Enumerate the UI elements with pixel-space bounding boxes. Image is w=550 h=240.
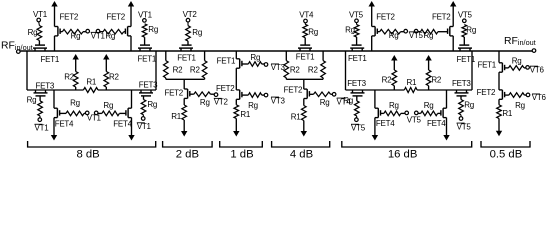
wire FET1R gate lead (16dB)	[463, 37, 465, 45]
transistor FET4 (16dB bottom-right shunt)	[427, 108, 447, 128]
resistor R1 (4dB)	[291, 99, 306, 122]
svg-text:VT2: VT2	[183, 10, 198, 19]
svg-text:Rg: Rg	[320, 98, 330, 107]
wire 16dB bottom rail right	[417, 89, 472, 91]
svg-text:Rg: Rg	[515, 101, 525, 110]
svg-text:FET2: FET2	[477, 88, 496, 97]
svg-text:Rg: Rg	[27, 95, 37, 104]
svg-text:1 dB: 1 dB	[230, 149, 253, 161]
resistor Rg (16dB FET1L gate)	[345, 25, 359, 37]
resistor Rg (FET3R gate)	[141, 100, 157, 115]
resistor R2 (8dB left)	[64, 72, 78, 91]
resistor R1 (1dB)	[234, 99, 251, 119]
resistor Rg (FET4L gate)	[60, 99, 84, 116]
wire FET1 gate lead (4dB)	[304, 38, 306, 45]
wire input node drop	[26, 51, 28, 90]
transistor FET1 (16dB left series)	[348, 45, 367, 63]
svg-text:R2: R2	[308, 65, 319, 74]
node VT4 terminal	[299, 11, 314, 25]
svg-text:Rg: Rg	[28, 28, 38, 37]
node V-bar-T3 terminal (1dB upper)	[262, 63, 286, 72]
svg-text:Rg: Rg	[147, 100, 157, 109]
svg-text:Rg: Rg	[389, 101, 399, 110]
wire main RF rail	[20, 50, 532, 52]
svg-text:Rg: Rg	[424, 31, 434, 40]
svg-text:R1: R1	[240, 110, 251, 119]
transistor FET2 (2dB shunt)	[164, 88, 189, 98]
wire FET4R drain to bottom rail	[131, 90, 133, 108]
svg-text:VT1: VT1	[91, 32, 106, 41]
svg-text:FET2: FET2	[376, 13, 395, 22]
transistor FET3 (8dB bottom-left series)	[34, 81, 55, 96]
node V-bar-T1 terminal (top middle right)	[91, 29, 106, 40]
resistor Rg (FET1L gate)	[28, 26, 42, 41]
transistor FET1 (2dB series)	[177, 45, 196, 63]
svg-text:2 dB: 2 dB	[176, 149, 199, 161]
transistor FET2 (8dB top-right shunt)	[106, 13, 131, 36]
node V-bar-T1 terminal (bottom left)	[35, 116, 50, 133]
transistor FET2 (8dB top-left shunt)	[55, 13, 79, 36]
svg-text:VT5: VT5	[457, 122, 472, 131]
transistor FET2 (1dB)	[216, 84, 242, 100]
svg-text:Rg: Rg	[70, 99, 80, 108]
svg-text:Rg: Rg	[464, 101, 474, 110]
wire 16dB FET4L drain to rail	[374, 90, 376, 108]
svg-text:VT1: VT1	[87, 113, 102, 122]
transistor FET2 (0.5dB)	[477, 88, 505, 99]
wire 4dB R2R drop	[322, 51, 324, 61]
node V-bar-T1 terminal (bottom right)	[137, 115, 152, 131]
svg-text:R1: R1	[171, 112, 182, 121]
svg-text:R2: R2	[64, 73, 75, 82]
ground (arrow up, 16dB R2L)	[391, 55, 397, 70]
resistor R1 (16dB)	[404, 78, 417, 92]
resistor Rg (1dB FET2 gate)	[242, 93, 262, 110]
wire FET4L drain to bottom rail	[53, 90, 55, 108]
transistor FET1 (8dB right series)	[138, 45, 157, 63]
transistor FET1 (1dB)	[217, 56, 242, 68]
resistor Rg (16dB FET3R gate)	[459, 100, 474, 115]
svg-text:FET1: FET1	[477, 60, 496, 69]
wire FET1 gate lead (2dB)	[187, 41, 189, 45]
svg-text:FET2: FET2	[216, 84, 235, 93]
ground (arrow down, 16dB FET4R)	[443, 118, 449, 141]
svg-text:R2: R2	[190, 65, 201, 74]
wire FET3L gate lead	[39, 96, 41, 101]
svg-text:VT6: VT6	[532, 93, 547, 102]
svg-text:Rg: Rg	[308, 28, 318, 37]
wire 4dB join	[286, 78, 323, 80]
resistor Rg (4dB FET1 gate)	[303, 24, 318, 37]
transistor FET2 (4dB shunt)	[284, 86, 310, 99]
node V-bar-T5 terminal (bottom left)	[351, 116, 366, 133]
svg-text:FET2: FET2	[432, 12, 451, 21]
wire 2dB R2L drop	[165, 51, 167, 61]
wire 16dB bottom rail left	[346, 89, 405, 91]
node VT5 terminal (bottom mid-right)	[407, 111, 422, 125]
svg-text:VT5: VT5	[349, 11, 364, 20]
transistor FET3 (16dB bottom-right series)	[452, 79, 471, 96]
wire FET1L gate lead	[38, 41, 40, 46]
resistor R1 (8dB)	[83, 78, 98, 93]
svg-text:RFin/out: RFin/out	[504, 36, 536, 47]
wire FET3L gate lead (16dB)	[356, 96, 358, 101]
wire 16dB input drop	[345, 51, 347, 90]
wire FET1L gate lead (16dB)	[356, 37, 358, 45]
svg-text:FET3: FET3	[139, 81, 158, 90]
resistor Rg (2dB FET2 gate)	[190, 92, 211, 107]
svg-text:R1: R1	[291, 113, 302, 122]
svg-text:FET1: FET1	[457, 55, 476, 64]
node V-bar-T6 terminal (upper)	[524, 65, 545, 74]
ground (arrow down, 0.5dB)	[496, 119, 502, 137]
svg-text:VT5: VT5	[409, 31, 424, 40]
ground (arrow up, FET2L)	[51, 1, 57, 27]
svg-text:FET4: FET4	[376, 119, 395, 128]
ground (arrow up, 16dB FET2L)	[369, 1, 375, 27]
node VT5 terminal (top right)	[458, 11, 473, 23]
wire 16dB output drop	[471, 51, 473, 90]
ground (arrow down, FET4R)	[128, 118, 134, 141]
svg-text:FET3: FET3	[347, 79, 366, 88]
resistor R1 (2dB)	[171, 98, 186, 121]
resistor Rg (16dB FET3L gate)	[343, 96, 359, 116]
transistor FET3 (16dB bottom-left series)	[347, 79, 366, 96]
svg-text:Rg: Rg	[148, 25, 158, 34]
ground (arrow down, 1dB)	[233, 119, 239, 137]
ground (arrow up, R2 right)	[103, 54, 109, 72]
resistor Rg (1dB FET1 gate)	[242, 53, 262, 67]
wire FET3R gate lead (16dB)	[460, 96, 462, 100]
svg-text:FET1: FET1	[348, 54, 367, 63]
svg-text:FET3: FET3	[36, 81, 55, 90]
resistor Rg (FET2R gate)	[100, 29, 124, 40]
wire output node drop	[155, 51, 157, 90]
svg-text:VT2: VT2	[214, 98, 229, 107]
node V-bar-T6 terminal (lower)	[524, 93, 546, 102]
svg-text:R2: R2	[173, 65, 184, 74]
svg-text:FET1: FET1	[217, 56, 236, 65]
resistor Rg (16dB FET4L gate)	[381, 101, 401, 116]
wire 0.5dB inter-FET	[498, 72, 500, 90]
wire 1dB inter-FET	[235, 68, 237, 90]
svg-text:R2: R2	[290, 65, 301, 74]
RF in/out terminal (right)	[504, 36, 536, 52]
wire 16dB FET2L source to rail	[371, 36, 373, 51]
svg-text:Rg: Rg	[389, 31, 399, 40]
wire 0.5dB branch drop	[498, 51, 500, 63]
node V-bar-T5 terminal (bottom right)	[457, 115, 472, 132]
svg-text:FET1: FET1	[177, 54, 196, 63]
node VT2 terminal	[183, 10, 198, 26]
svg-text:VT1: VT1	[138, 10, 153, 19]
ground (arrow down, 2dB)	[181, 120, 187, 137]
transistor FET3 (8dB bottom-right series)	[139, 81, 158, 96]
resistor Rg (16dB FET2L gate)	[377, 29, 400, 40]
wire 2dB join	[166, 78, 205, 80]
svg-text:FET4: FET4	[113, 119, 132, 128]
wire 4dB shunt tap	[303, 79, 305, 89]
node V-bar-T5 terminal (top mid-left)	[401, 29, 408, 33]
svg-text:Rg: Rg	[71, 32, 81, 41]
wire bottom rail right	[98, 89, 156, 91]
wire FET2L source to rail	[54, 36, 56, 51]
label 1 dB bracket	[220, 141, 263, 161]
transistor FET2 (16dB top-left shunt)	[372, 13, 396, 36]
ground (arrow down, FET4L)	[51, 118, 57, 141]
resistor Rg (FET4R gate)	[98, 101, 119, 116]
svg-text:Rg: Rg	[200, 98, 210, 107]
svg-text:Rg: Rg	[103, 101, 113, 110]
svg-text:FET2: FET2	[60, 13, 79, 22]
node V-bar-T3 terminal (1dB lower)	[262, 93, 286, 105]
svg-text:VT5: VT5	[458, 11, 473, 20]
label 4 dB bracket	[272, 141, 330, 161]
wire FET1R gate lead	[144, 37, 146, 45]
resistor Rg (0.5dB FET2 gate)	[505, 93, 525, 110]
svg-text:Rg: Rg	[250, 53, 260, 62]
ground (arrow up, FET2R)	[128, 1, 134, 27]
wire 2dB R2R drop	[204, 51, 206, 61]
svg-text:R2: R2	[109, 73, 120, 82]
wire 16dB FET4R drain to rail	[446, 90, 448, 108]
svg-text:Rg: Rg	[466, 25, 476, 34]
transistor FET4 (16dB bottom-left shunt)	[375, 108, 395, 128]
ground (arrow down, 4dB)	[301, 121, 307, 137]
transistor FET4 (8dB bottom-left shunt)	[54, 108, 74, 128]
resistor R2 (4dB left)	[284, 61, 300, 80]
resistor R2 (16dB right)	[426, 70, 442, 90]
resistor Rg (16dB FET1R gate)	[462, 25, 476, 37]
node V-bar-T2 terminal	[211, 93, 229, 107]
node V-bar-T5 terminal (top mid-right)	[409, 29, 424, 40]
svg-text:VT3: VT3	[271, 96, 286, 105]
resistor R2 (16dB left)	[382, 70, 397, 90]
svg-text:FET3: FET3	[452, 79, 471, 88]
resistor R2 (4dB right)	[308, 61, 325, 80]
svg-text:16 dB: 16 dB	[388, 149, 418, 161]
svg-text:VT1: VT1	[137, 122, 152, 131]
resistor Rg (16dB FET2R gate)	[418, 29, 438, 40]
svg-text:VT1: VT1	[35, 124, 50, 133]
transistor FET1 (4dB series)	[296, 45, 315, 61]
wire 16dB FET2R source to rail	[452, 36, 454, 51]
ground (arrow up, 16dB FET2R)	[450, 1, 456, 27]
svg-text:0.5 dB: 0.5 dB	[490, 149, 523, 161]
svg-text:FET2: FET2	[284, 86, 303, 95]
resistor Rg (FET3L gate)	[27, 95, 43, 116]
RF in/out terminal (left)	[1, 41, 33, 54]
svg-text:FET2: FET2	[106, 13, 125, 22]
svg-text:VT4: VT4	[299, 11, 314, 20]
node VT5 terminal (top left)	[349, 11, 364, 25]
transistor FET1 (8dB left series)	[33, 45, 60, 64]
label 2 dB bracket	[163, 141, 213, 161]
svg-text:VT5: VT5	[351, 124, 366, 133]
svg-text:FET4: FET4	[55, 119, 74, 128]
node VT1 terminal (bottom middle left)	[84, 111, 89, 115]
svg-text:Rg: Rg	[343, 96, 353, 105]
svg-text:FET1: FET1	[41, 55, 60, 64]
svg-text:8 dB: 8 dB	[76, 149, 99, 161]
resistor Rg (FET2L gate)	[60, 29, 83, 40]
label 8 dB bracket	[28, 141, 156, 161]
resistor Rg (2dB FET1 gate)	[186, 26, 202, 41]
svg-text:Rg: Rg	[248, 101, 258, 110]
svg-text:4 dB: 4 dB	[290, 149, 313, 161]
label 0.5 dB bracket	[481, 141, 530, 161]
node VT1 terminal (top left)	[33, 10, 48, 25]
resistor R2 (2dB right)	[190, 61, 207, 80]
svg-text:FET4: FET4	[427, 119, 446, 128]
svg-text:FET1: FET1	[296, 52, 315, 61]
resistor Rg (0.5dB FET1 gate)	[505, 57, 524, 71]
node V-bar-T4 terminal	[331, 93, 352, 107]
svg-text:R1: R1	[502, 109, 513, 118]
transistor FET2 (16dB top-right shunt)	[432, 12, 453, 36]
node VT5 terminal (bottom mid-left)	[401, 111, 409, 115]
resistor R2 (2dB left)	[164, 61, 184, 80]
svg-text:FET1: FET1	[138, 55, 157, 64]
transistor FET1 (0.5dB)	[477, 60, 504, 72]
resistor Rg (16dB FET4R gate)	[418, 101, 438, 116]
svg-text:Rg: Rg	[345, 25, 355, 34]
svg-text:Rg: Rg	[512, 57, 522, 66]
svg-text:R2: R2	[431, 75, 442, 84]
node VT1 terminal (top right)	[138, 10, 153, 22]
wire 2dB shunt tap	[183, 79, 185, 89]
wire bottom rail left	[27, 89, 83, 91]
transistor FET1 (16dB right series)	[457, 45, 476, 64]
ground (arrow up, R2 left)	[73, 54, 79, 72]
resistor R2 (8dB right)	[104, 72, 120, 91]
resistor R1 (0.5dB)	[497, 99, 513, 118]
resistor Rg (4dB FET2 gate)	[309, 92, 330, 107]
node VT1 terminal (bottom middle right)	[87, 111, 102, 122]
ground (arrow down, 16dB FET4L)	[372, 118, 378, 141]
svg-text:R1: R1	[86, 78, 97, 87]
svg-text:Rg: Rg	[424, 101, 434, 110]
wire 4dB R2L drop	[285, 51, 287, 61]
transistor FET4 (8dB bottom-right shunt)	[113, 108, 132, 128]
label 16 dB bracket	[342, 141, 472, 161]
svg-text:VT6: VT6	[530, 65, 545, 74]
node V-bar-T1 terminal (top middle left)	[83, 29, 89, 33]
svg-text:Rg: Rg	[105, 32, 115, 41]
wire FET3R gate lead	[143, 96, 145, 100]
ground (arrow up, 16dB R2R)	[425, 55, 431, 70]
svg-text:VT1: VT1	[33, 10, 48, 19]
svg-text:Rg: Rg	[192, 28, 202, 37]
wire 1dB branch drop	[235, 51, 237, 59]
svg-text:FET2: FET2	[164, 88, 183, 97]
svg-text:R2: R2	[382, 75, 393, 84]
svg-text:VT5: VT5	[407, 116, 422, 125]
wire FET2R source to rail	[130, 36, 132, 51]
resistor Rg (FET1R gate)	[142, 24, 158, 37]
svg-text:R1: R1	[407, 78, 418, 87]
